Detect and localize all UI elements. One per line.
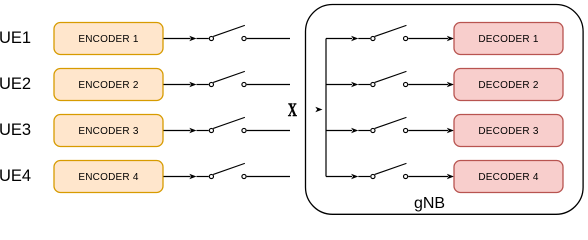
svg-text:DECODER 2: DECODER 2 [478, 80, 539, 91]
branch wire bus to switch S8 with arrowhead [326, 174, 370, 180]
svg-text:gNB: gNB [414, 195, 445, 212]
svg-text:DECODER 3: DECODER 3 [478, 126, 539, 137]
wire encoder 4 to switch S4 with arrowhead [164, 174, 209, 180]
decoder DECODER 4 box [454, 161, 563, 193]
svg-text:DECODER 1: DECODER 1 [478, 34, 539, 45]
encoder ENCODER 2 box [54, 69, 163, 101]
decoder DECODER 3 box [454, 115, 563, 147]
wire switch S8 to decoder 4 with arrowhead [408, 174, 454, 180]
wire switch S2 to channel [247, 84, 290, 86]
wire switch S1 to channel [247, 38, 290, 40]
switch S3 (open) [209, 118, 246, 133]
svg-text:X: X [288, 101, 297, 121]
wire encoder 2 to switch S2 with arrowhead [164, 82, 209, 88]
branch wire bus to switch S7 with arrowhead [326, 128, 370, 134]
wire switch S4 to channel [247, 176, 290, 178]
encoder ENCODER 1 box [54, 23, 163, 55]
bus wire inside gNB [325, 39, 327, 177]
encoder ENCODER 3 box [54, 115, 163, 147]
branch wire bus to switch S6 with arrowhead [326, 82, 370, 88]
svg-text:UE1: UE1 [0, 29, 31, 47]
branch wire bus to switch S5 with arrowhead [326, 36, 370, 42]
decoder DECODER 1 box [454, 23, 563, 55]
svg-text:UE3: UE3 [0, 121, 31, 139]
wire switch S3 to channel [247, 130, 290, 132]
switch S8 (open) [371, 164, 408, 179]
switch S1 (open) [209, 26, 246, 41]
switch S4 (open) [209, 164, 246, 179]
wire switch S5 to decoder 1 with arrowhead [408, 36, 454, 42]
wire switch S6 to decoder 2 with arrowhead [408, 82, 454, 88]
switch S2 (open) [209, 72, 246, 87]
wire encoder 3 to switch S3 with arrowhead [164, 128, 209, 134]
wire switch S7 to decoder 3 with arrowhead [408, 128, 454, 134]
svg-text:ENCODER 3: ENCODER 3 [78, 126, 139, 137]
encoder ENCODER 4 box [54, 161, 163, 193]
svg-text:ENCODER 4: ENCODER 4 [78, 172, 139, 183]
switch S6 (open) [371, 72, 408, 87]
svg-text:DECODER 4: DECODER 4 [478, 172, 539, 183]
svg-text:ENCODER 1: ENCODER 1 [78, 34, 139, 45]
svg-text:UE4: UE4 [0, 167, 31, 185]
switch S5 (open) [371, 26, 408, 41]
arrowhead into gNB bus [315, 107, 322, 113]
gNB enclosure box [306, 5, 584, 215]
decoder DECODER 2 box [454, 69, 563, 101]
svg-text:UE2: UE2 [0, 75, 31, 93]
wire encoder 1 to switch S1 with arrowhead [164, 36, 209, 42]
switch S7 (open) [371, 118, 408, 133]
svg-text:ENCODER 2: ENCODER 2 [78, 80, 139, 91]
